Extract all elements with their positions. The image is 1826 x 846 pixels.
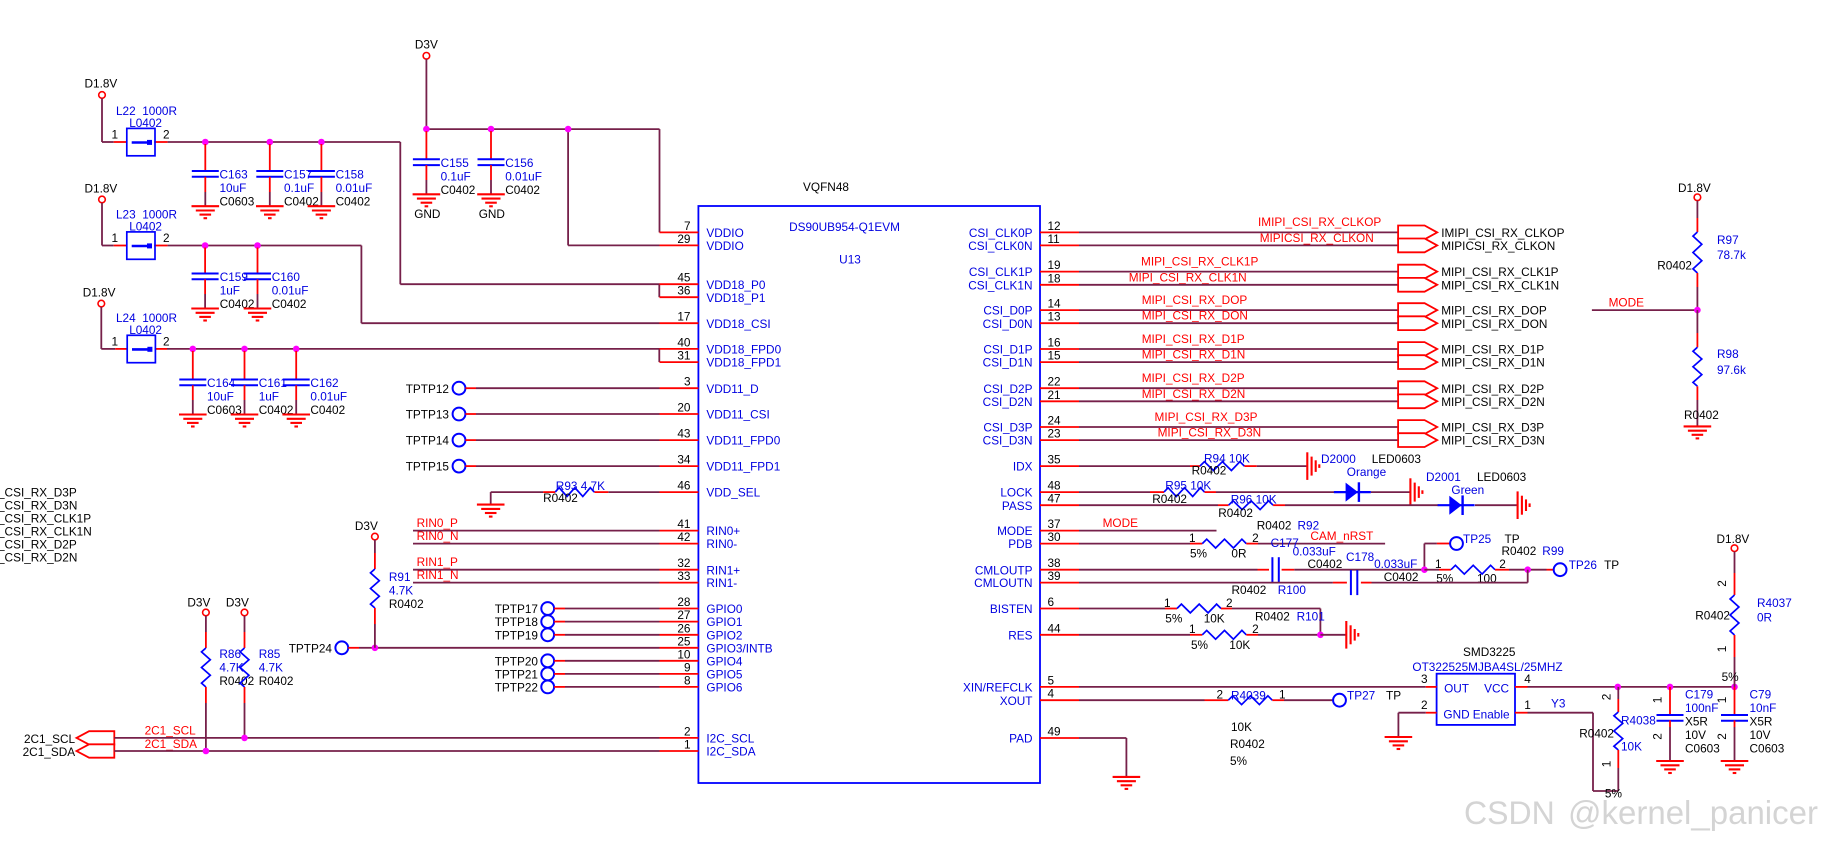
- svg-text:43: 43: [677, 427, 691, 441]
- pin 18 CSI_CLK1N (right): [1040, 284, 1079, 286]
- svg-text:0.01uF: 0.01uF: [336, 181, 373, 195]
- svg-text:R92: R92: [1298, 519, 1320, 533]
- svg-text:2C1_SCL: 2C1_SCL: [145, 724, 197, 738]
- pin 48 LOCK (right): [1040, 491, 1079, 493]
- svg-text:C0402: C0402: [272, 297, 307, 311]
- wire RIN1_N to pin 33: [413, 582, 660, 584]
- svg-text:1uF: 1uF: [220, 284, 240, 298]
- svg-text:_CSI_RX_D2P: _CSI_RX_D2P: [0, 538, 77, 552]
- pin 35 IDX (right): [1040, 465, 1079, 467]
- svg-text:CSI_D1P: CSI_D1P: [983, 343, 1032, 357]
- svg-text:PAD: PAD: [1009, 732, 1032, 746]
- svg-text:C0402: C0402: [310, 403, 345, 417]
- ground at R93: [477, 505, 505, 517]
- svg-text:BISTEN: BISTEN: [990, 602, 1033, 616]
- svg-text:CSI_D1N: CSI_D1N: [983, 356, 1033, 370]
- svg-text:GPIO6: GPIO6: [706, 681, 742, 695]
- svg-text:5%: 5%: [1722, 670, 1740, 684]
- svg-text:2: 2: [163, 231, 170, 245]
- svg-text:SMD3225: SMD3225: [1463, 645, 1516, 659]
- svg-text:VDD11_D: VDD11_D: [706, 382, 758, 396]
- svg-text:R85: R85: [259, 647, 281, 661]
- svg-text:VDD18_FPD0: VDD18_FPD0: [706, 343, 781, 357]
- svg-text:C0603: C0603: [220, 194, 255, 208]
- pin 7 VDDIO (left): [660, 231, 699, 233]
- svg-text:2: 2: [1252, 622, 1259, 636]
- pin 21 CSI_D2N (right): [1040, 400, 1079, 402]
- svg-text:R100: R100: [1278, 583, 1307, 597]
- svg-text:TP: TP: [1604, 558, 1619, 572]
- svg-text:Green: Green: [1451, 483, 1484, 497]
- resistor (RES) 10K: [1202, 630, 1246, 639]
- pin 36 VDD18_P1 (left): [660, 296, 699, 298]
- svg-text:R0402: R0402: [1257, 519, 1292, 533]
- wire D1.8V to L22 pin1: [101, 98, 103, 142]
- svg-text:2: 2: [163, 128, 170, 142]
- svg-text:TP: TP: [1386, 689, 1401, 703]
- svg-text:37: 37: [1048, 517, 1061, 531]
- svg-text:R0402: R0402: [1255, 609, 1290, 623]
- pin 49 PAD (right): [1040, 737, 1079, 739]
- pin 16 CSI_D1P (right): [1040, 348, 1079, 350]
- pin 20 VDD11_CSI (left): [660, 413, 699, 415]
- svg-text:MIPI_CSI_RX_D2P: MIPI_CSI_RX_D2P: [1441, 382, 1544, 396]
- pin 13 CSI_D0N (right): [1040, 322, 1079, 324]
- svg-text:1: 1: [1189, 531, 1196, 545]
- wire RIN1_P to pin 32: [413, 569, 660, 571]
- pin 29 VDDIO (left): [660, 244, 699, 246]
- output arrow MIPI_CSI_RX_D2N: [1398, 394, 1437, 408]
- svg-text:LOCK: LOCK: [1000, 486, 1032, 500]
- wire MODE net (right): [1592, 309, 1698, 311]
- output arrow MIPI_CSI_RX_CLK1P: [1398, 265, 1437, 279]
- svg-text:97.6k: 97.6k: [1717, 363, 1746, 377]
- wire PAD row to ground: [1079, 737, 1126, 739]
- pin 42 RIN0- (left): [660, 543, 699, 545]
- pin 47 PASS (right): [1040, 504, 1079, 506]
- svg-text:RIN0+: RIN0+: [706, 524, 740, 538]
- capacitor C155 0.1uF: [425, 131, 427, 159]
- svg-text:2C1_SDA: 2C1_SDA: [145, 737, 198, 751]
- svg-text:4: 4: [1524, 672, 1531, 686]
- svg-text:CSI_D0P: CSI_D0P: [983, 304, 1032, 318]
- pin 19 CSI_CLK1P (right): [1040, 271, 1079, 273]
- svg-text:C178: C178: [1346, 550, 1375, 564]
- resistor R4037 0R: [1734, 552, 1736, 574]
- svg-text:30: 30: [1048, 530, 1062, 544]
- svg-text:2: 2: [1226, 596, 1233, 610]
- svg-text:6: 6: [1048, 595, 1055, 609]
- svg-text:MIPI_CSI_RX_CLK1N: MIPI_CSI_RX_CLK1N: [1441, 278, 1559, 292]
- svg-text:45: 45: [677, 271, 691, 285]
- svg-text:2C1_SDA: 2C1_SDA: [23, 745, 76, 759]
- svg-text:CSI_D0N: CSI_D0N: [983, 317, 1033, 331]
- svg-text:1uF: 1uF: [259, 390, 279, 404]
- svg-text:TPTP17: TPTP17: [495, 602, 538, 616]
- junction dot RES/BISTEN: [1317, 632, 1324, 639]
- svg-text:GPIO1: GPIO1: [706, 615, 742, 629]
- ground below C158: [308, 206, 336, 218]
- svg-text:VDD18_P0: VDD18_P0: [706, 278, 765, 292]
- svg-text:40: 40: [677, 335, 691, 349]
- ground below C160: [244, 309, 272, 321]
- svg-text:33: 33: [677, 569, 691, 583]
- ground below C179: [1656, 761, 1684, 773]
- wire CSI pair to arrows (MIPI_CSI_RX_D3P): [1079, 426, 1398, 428]
- svg-text:47: 47: [1048, 492, 1061, 506]
- Y3 pin 4 VCC: [1515, 686, 1528, 688]
- svg-text:3: 3: [1421, 672, 1428, 686]
- output arrow MIPI_CSI_RX_D1P: [1398, 342, 1437, 356]
- svg-text:R4038: R4038: [1621, 714, 1656, 728]
- svg-text:XOUT: XOUT: [1000, 694, 1033, 708]
- svg-text:L0402: L0402: [129, 323, 162, 337]
- svg-text:OT322525MJBA4SL/25MHZ: OT322525MJBA4SL/25MHZ: [1412, 660, 1562, 674]
- svg-text:_CSI_RX_D2N: _CSI_RX_D2N: [0, 551, 77, 565]
- svg-text:IDX: IDX: [1013, 460, 1033, 474]
- svg-text:0.1uF: 0.1uF: [284, 181, 314, 195]
- svg-text:C0402: C0402: [1308, 557, 1343, 571]
- pin 28 GPIO0 (left): [660, 608, 699, 610]
- svg-text:RIN1_P: RIN1_P: [417, 555, 458, 569]
- svg-text:MIPI_CSI_RX_D3N: MIPI_CSI_RX_D3N: [1441, 434, 1545, 448]
- resistor R94 10K: [1200, 462, 1245, 471]
- wire L23 rail (VDD18_CSI net): [168, 245, 362, 247]
- pin 8 GPIO6 (left): [660, 686, 699, 688]
- svg-text:5%: 5%: [1605, 786, 1623, 800]
- svg-text:Y3: Y3: [1551, 696, 1566, 710]
- pin 45 VDD18_P0 (left): [660, 283, 699, 285]
- pin 30 PDB (right): [1040, 543, 1079, 545]
- svg-text:RIN0-: RIN0-: [706, 537, 737, 551]
- svg-text:VDD_SEL: VDD_SEL: [706, 486, 760, 500]
- svg-text:1: 1: [1164, 596, 1171, 610]
- svg-text:5%: 5%: [1230, 754, 1248, 768]
- svg-text:MIPI_CSI_RX_D3P: MIPI_CSI_RX_D3P: [1155, 410, 1258, 424]
- svg-text:R0402: R0402: [1502, 544, 1537, 558]
- svg-text:C0402: C0402: [505, 183, 540, 197]
- capacitor C160 0.01uF: [257, 248, 259, 274]
- svg-text:C156: C156: [505, 156, 534, 170]
- svg-text:VDD18_CSI: VDD18_CSI: [706, 317, 770, 331]
- svg-text:C79: C79: [1750, 688, 1772, 702]
- output arrow MIPI_CSI_RX_DOP: [1398, 303, 1437, 317]
- resistor R98 97.6k: [1696, 310, 1698, 333]
- svg-text:10K: 10K: [1231, 720, 1252, 734]
- svg-text:4.7K: 4.7K: [389, 584, 413, 598]
- svg-text:CSI_CLK1N: CSI_CLK1N: [968, 278, 1032, 292]
- svg-text:R4039: R4039: [1231, 689, 1266, 703]
- svg-text:8: 8: [684, 673, 691, 687]
- junction dot R85 on SCL: [241, 735, 248, 742]
- svg-text:D1.8V: D1.8V: [1678, 181, 1711, 195]
- svg-text:24: 24: [1048, 414, 1062, 428]
- svg-text:R0402: R0402: [1152, 492, 1187, 506]
- ground below C162: [282, 415, 310, 427]
- svg-text:C164: C164: [207, 376, 236, 390]
- svg-text:2: 2: [1715, 580, 1729, 587]
- svg-text:C0402: C0402: [336, 194, 371, 208]
- ground (sideways) after D2000: [1410, 478, 1422, 506]
- Y3 pin 3 OUT: [1426, 686, 1437, 688]
- wire I2C_SCL to pin 2: [114, 737, 659, 739]
- wire CSI pair to arrows (MIPI_CSI_RX_DOP): [1079, 309, 1398, 311]
- LED D2001 (green): [1438, 495, 1475, 515]
- wire LOCK row: [1079, 491, 1150, 493]
- resistor R4039 10K: [1217, 699, 1229, 701]
- svg-text:0.01uF: 0.01uF: [505, 169, 542, 183]
- svg-text:1: 1: [111, 128, 118, 142]
- svg-text:2: 2: [1600, 694, 1614, 701]
- ground GND below C156: [477, 194, 505, 206]
- svg-text:TPTP24: TPTP24: [289, 641, 333, 655]
- svg-text:TP27: TP27: [1347, 689, 1375, 703]
- svg-text:CSI_CLK0N: CSI_CLK0N: [968, 239, 1032, 253]
- ground at R98: [1684, 426, 1712, 438]
- svg-text:GPIO5: GPIO5: [706, 668, 742, 682]
- pin 2 I2C_SCL (left): [660, 737, 699, 739]
- svg-text:R0402: R0402: [389, 597, 424, 611]
- svg-text:41: 41: [677, 517, 690, 531]
- ground below C163: [192, 206, 220, 218]
- ground (sideways) at RES: [1346, 621, 1358, 649]
- wire CSI pair to arrows (MIPI_CSI_RX_D1P): [1079, 348, 1398, 350]
- svg-text:_CSI_RX_D3N: _CSI_RX_D3N: [0, 499, 77, 513]
- svg-text:R0402: R0402: [1230, 737, 1265, 751]
- svg-text:10K: 10K: [1229, 638, 1250, 652]
- wire CMLOUTN row to C178: [1079, 582, 1333, 584]
- wire RIN0_N to pin 42: [413, 543, 660, 545]
- pin 25 GPIO3/INTB (left): [660, 647, 699, 649]
- svg-text:2C1_SCL: 2C1_SCL: [24, 732, 76, 746]
- svg-text:U13: U13: [839, 253, 861, 267]
- pin 10 GPIO4 (left): [660, 660, 699, 662]
- svg-text:D1.8V: D1.8V: [83, 286, 116, 300]
- svg-text:CMLOUTP: CMLOUTP: [975, 563, 1033, 577]
- wire RES row: [1079, 634, 1190, 636]
- svg-text:10: 10: [677, 647, 691, 661]
- svg-text:1: 1: [111, 231, 118, 245]
- svg-text:VDD18_FPD1: VDD18_FPD1: [706, 356, 781, 370]
- svg-text:38: 38: [1048, 556, 1062, 570]
- svg-text:35: 35: [1048, 453, 1062, 467]
- junction dot MODE divider: [1694, 307, 1701, 314]
- svg-text:PDB: PDB: [1008, 537, 1032, 551]
- wire Y3 pin2 to ground: [1398, 712, 1425, 714]
- svg-text:0.01uF: 0.01uF: [310, 390, 347, 404]
- resistor R96 10K: [1229, 501, 1274, 510]
- output arrow MIPI_CSI_RX_D3P: [1398, 420, 1437, 434]
- output arrow MIPI_CSI_RX_D2P: [1398, 381, 1437, 395]
- svg-text:5%: 5%: [1191, 638, 1209, 652]
- output arrow MIPI_CSI_RX_CLK1N: [1398, 278, 1437, 292]
- output arrow MIPI_CSI_RX_D1N: [1398, 355, 1437, 369]
- svg-text:1: 1: [1715, 697, 1729, 704]
- capacitor C158 0.01uF: [320, 144, 322, 171]
- output arrow IMIPI_CSI_RX_CLKOP: [1398, 226, 1437, 240]
- svg-text:VDD11_FPD0: VDD11_FPD0: [706, 434, 780, 448]
- svg-text:XIN/REFCLK: XIN/REFCLK: [963, 681, 1033, 695]
- svg-text:C157: C157: [284, 168, 312, 182]
- pin 43 VDD11_FPD0 (left): [660, 439, 699, 441]
- svg-text:PASS: PASS: [1002, 499, 1033, 513]
- svg-text:R0402: R0402: [259, 674, 294, 688]
- svg-text:46: 46: [677, 479, 691, 493]
- svg-text:2: 2: [684, 724, 691, 738]
- ground below Y3 pin 2: [1385, 737, 1413, 749]
- svg-text:20: 20: [677, 401, 691, 415]
- svg-text:14: 14: [1048, 297, 1062, 311]
- op-amp U13 DS90UB954-Q1EVM body: [698, 206, 1040, 783]
- svg-text:15: 15: [1048, 349, 1062, 363]
- svg-text:4.7K: 4.7K: [259, 661, 283, 675]
- wire D1.8V to L24 pin1: [100, 307, 102, 349]
- svg-text:21: 21: [1048, 388, 1061, 402]
- wire CSI pair to arrows (MIPI_CSI_RX_CLK1P): [1079, 271, 1398, 273]
- svg-text:MODE: MODE: [997, 524, 1033, 538]
- pin 37 MODE (right): [1040, 530, 1079, 532]
- resistor (BISTEN) 10K: [1177, 604, 1221, 613]
- svg-text:IMIPI_CSI_RX_CLKOP: IMIPI_CSI_RX_CLKOP: [1258, 215, 1381, 229]
- svg-text:Orange: Orange: [1347, 465, 1387, 479]
- svg-text:CSDN: CSDN: [1464, 795, 1555, 831]
- svg-text:GND: GND: [1443, 707, 1469, 721]
- svg-text:D2000: D2000: [1321, 452, 1356, 466]
- pin 32 RIN1+ (left): [660, 569, 699, 571]
- wire D1.8V to L23 pin1: [101, 203, 103, 246]
- svg-text:GPIO3/INTB: GPIO3/INTB: [706, 641, 772, 655]
- svg-text:C158: C158: [336, 168, 365, 182]
- resistor R4038 10K: [1617, 687, 1619, 699]
- svg-text:_CSI_RX_CLK1P: _CSI_RX_CLK1P: [0, 512, 91, 526]
- svg-text:TP25: TP25: [1463, 532, 1492, 546]
- svg-text:R0402: R0402: [1684, 408, 1719, 422]
- junction dot R91/TPTP24: [372, 645, 379, 652]
- wire MODE row: [1079, 530, 1217, 532]
- junction dots on D3V rail: [423, 126, 430, 133]
- test point TP25 branch: [1423, 544, 1425, 570]
- pin 12 CSI_CLK0P (right): [1040, 231, 1079, 233]
- wire CSI pair to arrows (MIPI_CSI_RX_D2P): [1079, 387, 1398, 389]
- test point TP26: [1547, 569, 1554, 571]
- svg-text:CMLOUTN: CMLOUTN: [974, 576, 1032, 590]
- svg-text:RIN1+: RIN1+: [706, 563, 740, 577]
- svg-text:32: 32: [677, 556, 690, 570]
- wire D3V rail (VDDIO net): [425, 59, 427, 129]
- svg-text:10K: 10K: [1621, 740, 1642, 754]
- svg-text:1: 1: [684, 738, 691, 752]
- svg-text:9: 9: [684, 660, 691, 674]
- svg-text:1: 1: [1435, 557, 1442, 571]
- pin 3 VDD11_D (left): [660, 387, 699, 389]
- svg-text:R98: R98: [1717, 347, 1739, 361]
- svg-text:28: 28: [677, 595, 691, 609]
- svg-text:MIPI_CSI_RX_D1P: MIPI_CSI_RX_D1P: [1142, 332, 1245, 346]
- pin 5 XIN/REFCLK (right): [1040, 686, 1079, 688]
- output arrow MIPI_CSI_RX_D3N: [1398, 433, 1437, 447]
- capacitor C161 1uF: [244, 351, 246, 380]
- ground below C159: [191, 309, 219, 321]
- svg-text:2: 2: [1651, 733, 1665, 740]
- LED D2000 (orange): [1334, 482, 1371, 502]
- output arrow MIPI_CSI_RX_DON: [1398, 316, 1437, 330]
- svg-text:R0402: R0402: [1218, 506, 1253, 520]
- svg-text:VDDIO: VDDIO: [706, 239, 743, 253]
- pin 41 RIN0+ (left): [660, 530, 699, 532]
- svg-text:34: 34: [677, 453, 691, 467]
- svg-text:MIPI_CSI_RX_D3P: MIPI_CSI_RX_D3P: [1441, 421, 1544, 435]
- svg-text:MODE: MODE: [1103, 516, 1139, 530]
- svg-text:13: 13: [1048, 310, 1062, 324]
- pin 1 I2C_SDA (left): [660, 750, 699, 752]
- svg-text:100nF: 100nF: [1685, 701, 1718, 715]
- output arrow MIPICSI_RX_CLKON: [1398, 239, 1437, 253]
- pin 26 GPIO2 (left): [660, 634, 699, 636]
- capacitor C177 0.033uF (series): [1272, 557, 1278, 582]
- wire IDX row: [1079, 465, 1190, 467]
- svg-text:10K: 10K: [1204, 612, 1225, 626]
- svg-text:DS90UB954-Q1EVM: DS90UB954-Q1EVM: [789, 220, 900, 234]
- wire to sideways ground: [1320, 634, 1346, 636]
- svg-text:R96 10K: R96 10K: [1231, 492, 1277, 506]
- svg-text:0.01uF: 0.01uF: [272, 284, 309, 298]
- svg-text:C161: C161: [259, 376, 287, 390]
- pin 39 CMLOUTN (right): [1040, 582, 1079, 584]
- svg-text:49: 49: [1048, 725, 1061, 739]
- svg-text:C160: C160: [272, 270, 301, 284]
- svg-text:R0402: R0402: [1657, 259, 1692, 273]
- resistor R99 100: [1424, 569, 1439, 571]
- svg-text:4: 4: [1048, 687, 1055, 701]
- svg-text:MIPI_CSI_RX_D1P: MIPI_CSI_RX_D1P: [1441, 343, 1544, 357]
- capacitor C164 10uF: [192, 351, 194, 380]
- svg-text:10nF: 10nF: [1750, 701, 1777, 715]
- svg-text:R99: R99: [1542, 544, 1564, 558]
- wire I2C_SDA to pin 1: [114, 750, 659, 752]
- svg-text:TPTP18: TPTP18: [495, 615, 539, 629]
- resistor R93 4.7K (VDD_SEL): [608, 491, 659, 493]
- resistor R92 0R: [1202, 539, 1246, 548]
- svg-text:0.1uF: 0.1uF: [441, 169, 471, 183]
- capacitor C79 10nF: [1734, 687, 1736, 715]
- svg-text:10uF: 10uF: [220, 181, 247, 195]
- svg-text:1: 1: [1524, 698, 1531, 712]
- svg-text:CSI_D2P: CSI_D2P: [983, 382, 1032, 396]
- capacitor C159 1uF: [204, 248, 206, 274]
- svg-text:D3V: D3V: [226, 596, 249, 610]
- svg-text:2: 2: [1715, 733, 1729, 740]
- junction dots on L24 rail: [190, 346, 197, 353]
- svg-text:10uF: 10uF: [207, 390, 234, 404]
- svg-text:CSI_CLK1P: CSI_CLK1P: [969, 265, 1033, 279]
- svg-text:RIN0_P: RIN0_P: [417, 516, 458, 530]
- svg-text:L0402: L0402: [129, 116, 162, 130]
- svg-text:TPTP12: TPTP12: [406, 382, 449, 396]
- svg-text:42: 42: [677, 530, 690, 544]
- pin 6 BISTEN (right): [1040, 608, 1079, 610]
- junction dot TP26: [1524, 566, 1531, 573]
- svg-text:3: 3: [684, 375, 691, 389]
- capacitor C163 10uF: [204, 144, 206, 171]
- junction dots on VCC rail: [1615, 684, 1622, 691]
- svg-text:17: 17: [677, 310, 690, 324]
- svg-text:1: 1: [1279, 688, 1286, 702]
- svg-text:2: 2: [1421, 698, 1428, 712]
- svg-text:2: 2: [1499, 557, 1506, 571]
- ground below C79: [1721, 761, 1749, 773]
- svg-text:GPIO0: GPIO0: [706, 602, 742, 616]
- pin 40 VDD18_FPD0 (left): [660, 348, 699, 350]
